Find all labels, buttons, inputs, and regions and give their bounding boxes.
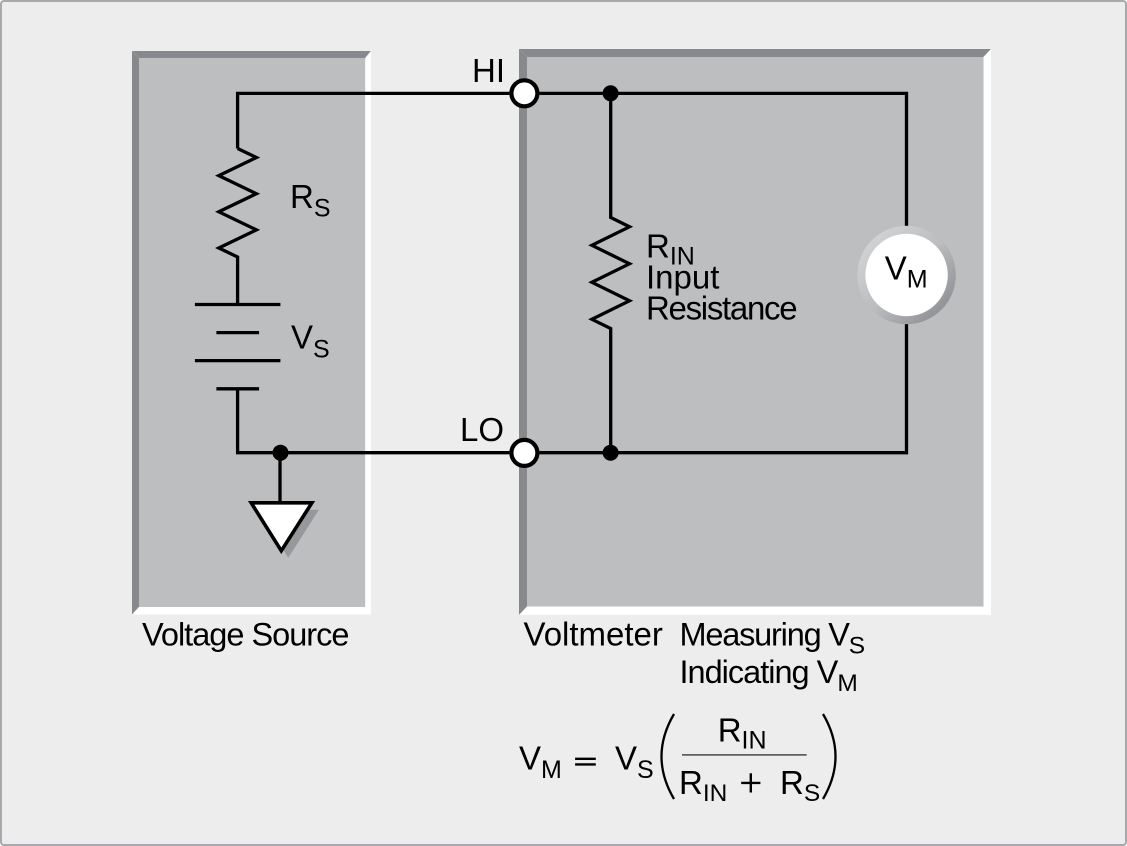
node: junction dot top <box>603 85 619 101</box>
wire: bottom LO wire right segment <box>540 324 907 453</box>
meter VM <box>857 226 955 324</box>
svg-text:HI: HI <box>472 52 505 89</box>
panel: Voltmeter box <box>519 49 991 615</box>
ground <box>251 453 319 558</box>
svg-text:Voltmeter: Voltmeter <box>524 616 663 653</box>
terminal LO <box>511 440 537 466</box>
terminal HI <box>511 80 537 106</box>
svg-text:RIN: RIN <box>679 764 727 807</box>
svg-text:Resistance: Resistance <box>646 290 796 327</box>
battery VS <box>195 305 281 389</box>
svg-text:RS: RS <box>780 764 820 807</box>
svg-text:LO: LO <box>460 411 504 448</box>
svg-text:VM: VM <box>519 740 562 784</box>
svg-text:VS: VS <box>615 740 654 784</box>
wire: top HI wire left segment <box>238 93 510 148</box>
wire: bottom LO wire left segment <box>238 389 510 453</box>
resistor RIN <box>592 93 630 452</box>
svg-text:RIN: RIN <box>718 712 767 755</box>
wire: top HI wire right segment <box>540 93 907 226</box>
formula right paren <box>823 714 836 799</box>
svg-text:Indicating VM: Indicating VM <box>680 654 857 697</box>
node: junction dot bottom <box>603 445 619 461</box>
panel: Voltage Source box <box>132 51 371 615</box>
formula left paren <box>662 714 675 799</box>
formula fraction bar <box>682 754 807 756</box>
resistor RS <box>219 149 257 305</box>
svg-text:Voltage Source: Voltage Source <box>142 617 348 653</box>
node: junction dot at ground <box>273 445 289 461</box>
